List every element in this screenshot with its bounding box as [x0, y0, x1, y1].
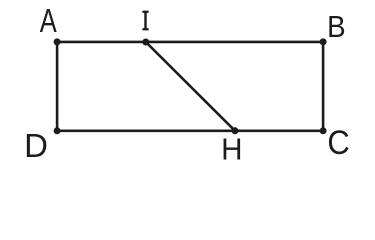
node I dot [142, 39, 149, 46]
svg-text:B: B [327, 10, 346, 45]
wire: side DC (bottom edge) [57, 130, 323, 133]
wire: side BC (right edge) [322, 42, 325, 131]
node A dot [54, 38, 61, 45]
svg-text:D: D [24, 127, 48, 164]
wire: side AD (left edge) [56, 42, 59, 131]
wire: side AB (top edge) [57, 41, 323, 44]
node C dot [320, 127, 327, 134]
label I (serifed capital I) [142, 11, 148, 31]
svg-text:H: H [221, 133, 242, 166]
svg-text:C: C [327, 124, 349, 162]
node H dot [232, 127, 239, 134]
svg-text:A: A [40, 3, 57, 40]
wire: segment IH (diagonal) [146, 42, 235, 131]
node D dot [54, 127, 61, 134]
node B dot [320, 38, 327, 45]
